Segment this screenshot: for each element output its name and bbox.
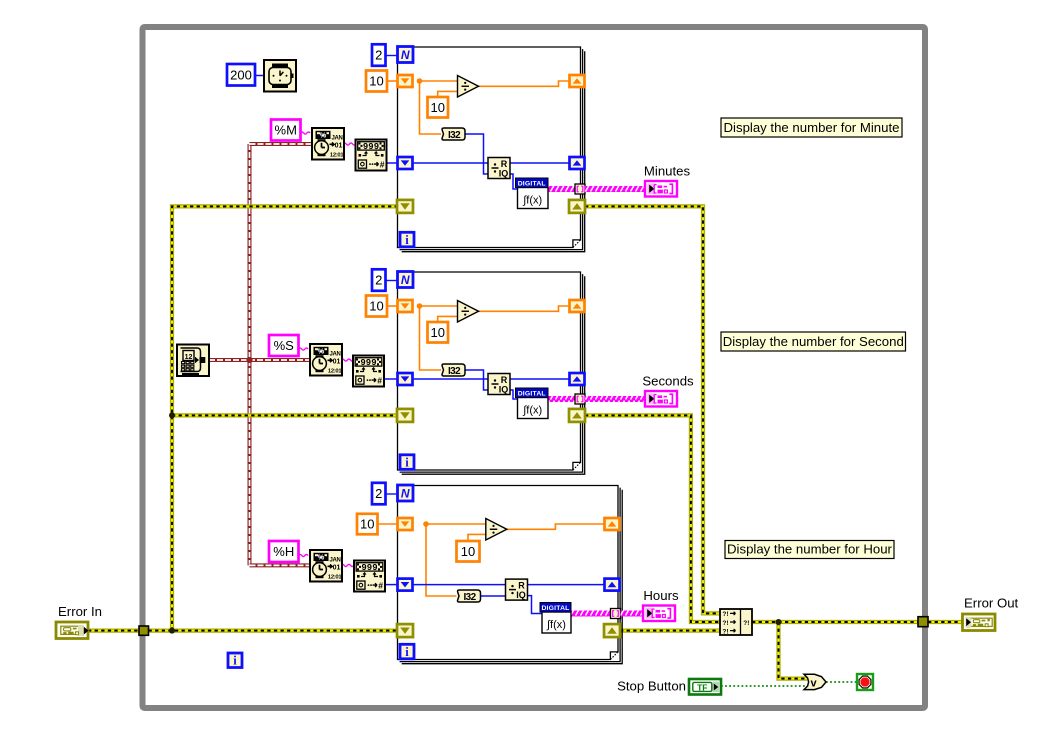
- numeric constant 10 (inner): [457, 541, 480, 562]
- error out border tunnel: [918, 617, 928, 627]
- svg-text:%: %: [318, 553, 325, 562]
- svg-text:%: %: [318, 347, 325, 356]
- wire remainder R to right tunnel: [510, 378, 569, 380]
- error wire loop 3 to merge: [620, 628, 720, 632]
- svg-text:v: v: [810, 678, 817, 690]
- svg-text:IQ: IQ: [499, 385, 509, 395]
- string wire %H to Format: [299, 554, 309, 556]
- error in border tunnel: [139, 626, 149, 635]
- svg-text:Seconds: Seconds: [642, 374, 694, 389]
- Quotient &amp; Remainder node (loop 1): [488, 158, 510, 179]
- wire 10 to shift register: [378, 523, 398, 525]
- error wire loop 2 to merge: [585, 415, 720, 622]
- svg-text:12: 12: [185, 354, 193, 361]
- error wire through loop 1: [413, 204, 570, 208]
- To Long Integer I32 node (loop 2): [442, 364, 465, 377]
- comment label Minute: [721, 118, 902, 137]
- svg-text:i: i: [405, 233, 409, 247]
- wire remainder R to right tunnel: [510, 162, 569, 164]
- left shift register (error, loop 2): [397, 409, 413, 422]
- wire 2 to N: [386, 493, 398, 495]
- Format Date/Time String node (H): [310, 550, 342, 582]
- svg-text:Minutes: Minutes: [644, 164, 691, 179]
- numeric constant 2: [372, 483, 386, 505]
- right shift register (blue, loop 2): [570, 373, 585, 385]
- numeric constant 10: [357, 514, 378, 535]
- string wire %S to Format: [299, 348, 309, 350]
- svg-text:∫f(x): ∫f(x): [522, 195, 542, 207]
- Format Into Digital node (loop 1): [516, 178, 549, 209]
- Error In control: [56, 622, 89, 639]
- digital waveform wire to indicator: [621, 611, 644, 617]
- numeric constant 10: [366, 71, 387, 92]
- wire I32 to quotient remainder y input: [481, 595, 506, 597]
- svg-text:?!: ?!: [722, 620, 728, 627]
- svg-text:R: R: [518, 581, 525, 591]
- svg-text:Display the number for Minute: Display the number for Minute: [724, 120, 900, 135]
- svg-text:JAN: JAN: [331, 135, 342, 141]
- error branch wire to loop 2: [172, 413, 398, 417]
- orange wire to divide x input: [420, 80, 458, 82]
- right shift register (orange, loop 2): [570, 300, 585, 312]
- left shift register (orange, loop 3): [398, 518, 413, 530]
- To Long Integer I32 node (loop 3): [458, 590, 481, 603]
- wire tunnel to quotient remainder x input: [413, 584, 506, 586]
- svg-text:R: R: [501, 159, 508, 169]
- svg-text:10: 10: [431, 100, 445, 115]
- svg-text:I32: I32: [448, 366, 461, 377]
- svg-text:Hours: Hours: [643, 588, 679, 603]
- error wire junction: [169, 412, 175, 418]
- Merge Errors node: [720, 609, 752, 635]
- svg-text:I32: I32: [463, 592, 476, 603]
- Wait Until Next ms Multiple node: [264, 60, 296, 92]
- error branch to Or gate: [779, 622, 808, 679]
- svg-text:Error Out: Error Out: [964, 596, 1019, 611]
- for loop 3: [398, 486, 623, 664]
- numeric constant 10 (inner): [428, 97, 449, 118]
- wire 10 to shift register: [387, 305, 398, 307]
- merged error wire to border: [752, 620, 918, 624]
- right shift register (orange, loop 3): [605, 518, 620, 530]
- Quotient &amp; Remainder node (loop 2): [488, 374, 510, 395]
- Get Date/Time In Seconds node: [177, 345, 209, 377]
- left shift register (error, loop 1): [397, 200, 413, 213]
- left shift register (orange, loop 2): [398, 300, 413, 312]
- for loop 2: [398, 272, 585, 474]
- Minutes indicator: [645, 181, 677, 197]
- numeric constant 2: [372, 269, 386, 291]
- right shift register (blue, loop 3): [605, 579, 620, 591]
- numeric wire to loop tunnel: [387, 162, 399, 164]
- left shift register (error, loop 3): [397, 624, 413, 637]
- orange wire divide to right shift register: [479, 306, 570, 311]
- time stamp wire to Format node 1: [250, 142, 313, 146]
- svg-text:I32: I32: [448, 130, 461, 141]
- numeric wire to loop tunnel: [385, 584, 399, 586]
- orange wire junction: [417, 303, 423, 309]
- error wire through loop 3: [413, 628, 605, 632]
- wire 200 to wait node: [255, 75, 264, 77]
- svg-text:10: 10: [431, 325, 445, 340]
- Hours indicator: [643, 606, 675, 622]
- divide function (loop 2): [458, 301, 479, 323]
- Format Date/Time String node (M): [312, 128, 344, 160]
- boolean wire Or to loop condition: [826, 681, 857, 683]
- while loop: [143, 27, 926, 708]
- svg-text:%H: %H: [273, 544, 294, 559]
- numeric constant 10 (inner): [428, 322, 449, 343]
- while loop iteration terminal i: [228, 653, 242, 668]
- string wire %M to Format: [301, 132, 311, 134]
- right shift register (blue, loop 1): [570, 157, 585, 169]
- loop iteration terminal i (loop 1): [400, 232, 414, 247]
- svg-text:2: 2: [375, 273, 382, 288]
- wire tunnel to quotient remainder x input: [413, 162, 489, 164]
- indexing output tunnel: [575, 394, 585, 404]
- right shift register (orange, loop 1): [570, 75, 585, 87]
- wire tunnel to quotient remainder x input: [413, 378, 489, 380]
- time stamp wire to Format node 3: [250, 563, 311, 567]
- svg-text:10: 10: [369, 74, 383, 89]
- svg-text:N: N: [401, 48, 410, 62]
- svg-text:JAN: JAN: [329, 557, 340, 563]
- Error Out indicator: [963, 614, 996, 631]
- error in wire: [88, 628, 139, 632]
- numeric constant 10: [366, 296, 387, 317]
- Decimal String To Number node (M): [356, 140, 387, 171]
- string wire Format to To-Number: [341, 564, 354, 566]
- svg-text:?!: ?!: [722, 628, 728, 635]
- error wire through loop 2: [413, 413, 570, 417]
- svg-text:IQ: IQ: [516, 590, 526, 600]
- string constant %H: [269, 541, 299, 562]
- orange wire to I32 conversion: [420, 306, 442, 370]
- digital waveform wire to indicator: [585, 396, 646, 402]
- string constant %M: [271, 120, 301, 141]
- svg-text:TF: TF: [697, 682, 707, 692]
- orange wire junction: [417, 78, 423, 84]
- To Long Integer I32 node (loop 1): [442, 128, 465, 141]
- svg-text:12:01: 12:01: [328, 368, 342, 374]
- wire 10 to shift register: [387, 80, 398, 82]
- Format Date/Time String node (S): [310, 344, 342, 376]
- svg-text:999: 999: [363, 142, 379, 152]
- svg-text:i: i: [405, 455, 409, 469]
- svg-text:Display the number for Second: Display the number for Second: [723, 334, 904, 349]
- numeric constant 200: [227, 64, 255, 86]
- svg-text:2: 2: [375, 48, 382, 63]
- svg-text:DIGITAL: DIGITAL: [541, 605, 569, 612]
- svg-text:12:01: 12:01: [330, 152, 344, 158]
- svg-text:i: i: [405, 645, 409, 659]
- wire quotient IQ to digital node: [528, 596, 543, 614]
- orange wire to I32 conversion: [420, 81, 442, 134]
- numeric constant 2: [372, 44, 386, 66]
- svg-text:Display the number for Hour: Display the number for Hour: [727, 542, 893, 557]
- boolean wire Stop Button to Or: [721, 685, 806, 687]
- svg-text:∫f(x): ∫f(x): [522, 405, 542, 417]
- svg-text:∫f(x): ∫f(x): [546, 619, 566, 631]
- orange wire junction: [423, 521, 429, 527]
- svg-text:999: 999: [360, 358, 376, 368]
- right shift register (error, loop 1): [569, 200, 585, 213]
- Quotient &amp; Remainder node (loop 3): [506, 579, 528, 600]
- wire 2 to N: [386, 55, 398, 57]
- svg-text:10: 10: [461, 544, 475, 559]
- loop iteration terminal i (loop 3): [400, 644, 414, 659]
- svg-text:i: i: [233, 654, 237, 668]
- numeric wire to loop tunnel: [384, 378, 399, 380]
- wire 2 to N: [386, 280, 398, 282]
- right shift register (error, loop 2): [569, 409, 585, 422]
- indexing output tunnel: [575, 184, 585, 194]
- left shift register (blue, loop 1): [398, 157, 413, 169]
- orange wire divide to right shift register: [507, 524, 604, 529]
- loop condition terminal (stop if true): [857, 674, 873, 690]
- divide function (loop 1): [458, 76, 479, 98]
- digital waveform wire to tunnel: [548, 186, 576, 192]
- svg-text:2: 2: [375, 486, 382, 501]
- svg-text:DIGITAL: DIGITAL: [518, 390, 546, 397]
- left shift register (blue, loop 3): [398, 579, 413, 591]
- svg-text:01: 01: [335, 142, 343, 149]
- svg-text:N: N: [401, 273, 410, 287]
- string wire Format to To-Number: [343, 143, 356, 145]
- loop count terminal N (loop 2): [398, 272, 414, 288]
- divide function (loop 3): [486, 519, 507, 541]
- digital waveform wire to tunnel: [548, 396, 576, 402]
- string constant %S: [269, 335, 299, 356]
- wire remainder R to right tunnel: [528, 584, 605, 586]
- svg-text:R: R: [501, 375, 508, 385]
- time stamp branch vertical wire: [248, 144, 252, 565]
- orange wire 10 to divide y input: [438, 91, 458, 97]
- digital waveform wire to indicator: [585, 186, 646, 192]
- orange wire 10 to divide y input: [438, 316, 458, 322]
- error out wire: [928, 620, 963, 624]
- left shift register (blue, loop 2): [398, 373, 413, 385]
- orange wire 10 to divide y input: [468, 534, 486, 541]
- error wire junction: [776, 619, 782, 625]
- wire quotient IQ to digital node: [510, 174, 518, 189]
- loop iteration terminal i (loop 2): [400, 455, 414, 470]
- orange wire to divide x input: [420, 305, 458, 307]
- Format Into Digital node (loop 2): [516, 388, 549, 419]
- Decimal String To Number node (S): [353, 356, 384, 387]
- svg-text:JAN: JAN: [329, 351, 340, 357]
- svg-text:#: #: [380, 160, 385, 170]
- svg-text:%: %: [320, 131, 327, 140]
- svg-text:12:01: 12:01: [328, 574, 342, 580]
- comment label Hour: [725, 541, 894, 559]
- svg-text:IQ: IQ: [499, 169, 509, 179]
- svg-text:?!: ?!: [722, 611, 728, 618]
- digital waveform wire to tunnel: [571, 611, 610, 617]
- svg-text:DIGITAL: DIGITAL: [518, 180, 546, 187]
- Or function: [804, 674, 826, 689]
- svg-text:10: 10: [360, 517, 374, 532]
- svg-text:%M: %M: [275, 123, 297, 138]
- Decimal String To Number node (H): [354, 561, 385, 592]
- Format Into Digital node (loop 3): [540, 603, 571, 634]
- svg-text:200: 200: [230, 67, 252, 82]
- comment label Second: [721, 332, 906, 351]
- for loop 1: [398, 47, 585, 252]
- svg-text:999: 999: [361, 563, 377, 573]
- orange wire divide to right shift register: [479, 81, 570, 86]
- svg-text:01: 01: [333, 564, 341, 571]
- svg-text:N: N: [401, 486, 410, 500]
- string wire Format to To-Number: [341, 359, 354, 361]
- Seconds indicator: [645, 391, 677, 407]
- wire I32 to quotient remainder y input: [465, 370, 488, 390]
- time stamp wire junction: [246, 357, 252, 363]
- left shift register (orange, loop 1): [398, 75, 413, 87]
- loop count terminal N (loop 3): [398, 485, 414, 501]
- Stop Button boolean control: [689, 679, 721, 695]
- svg-text:01: 01: [333, 358, 341, 365]
- error branch wire to loop 1: [172, 206, 398, 630]
- svg-text:#: #: [378, 581, 383, 591]
- svg-text:Stop Button: Stop Button: [617, 679, 686, 694]
- error wire to loop 3: [149, 628, 398, 632]
- wire quotient IQ to digital node: [510, 390, 518, 399]
- right shift register (error, loop 3): [604, 624, 620, 637]
- svg-text:Error In: Error In: [58, 604, 102, 619]
- loop count terminal N (loop 1): [398, 47, 414, 63]
- indexing output tunnel: [611, 609, 621, 619]
- svg-text:#: #: [377, 376, 382, 386]
- error wire junction: [169, 628, 175, 634]
- wire I32 to quotient remainder y input: [465, 134, 488, 174]
- svg-text:%S: %S: [274, 338, 295, 353]
- orange wire to I32 conversion: [426, 524, 457, 596]
- svg-text:?!: ?!: [743, 620, 749, 627]
- orange wire to divide x input: [426, 523, 486, 525]
- time stamp wire to Format node 2: [209, 358, 310, 362]
- error wire loop 1 to merge: [585, 206, 720, 613]
- svg-text:10: 10: [369, 299, 383, 314]
